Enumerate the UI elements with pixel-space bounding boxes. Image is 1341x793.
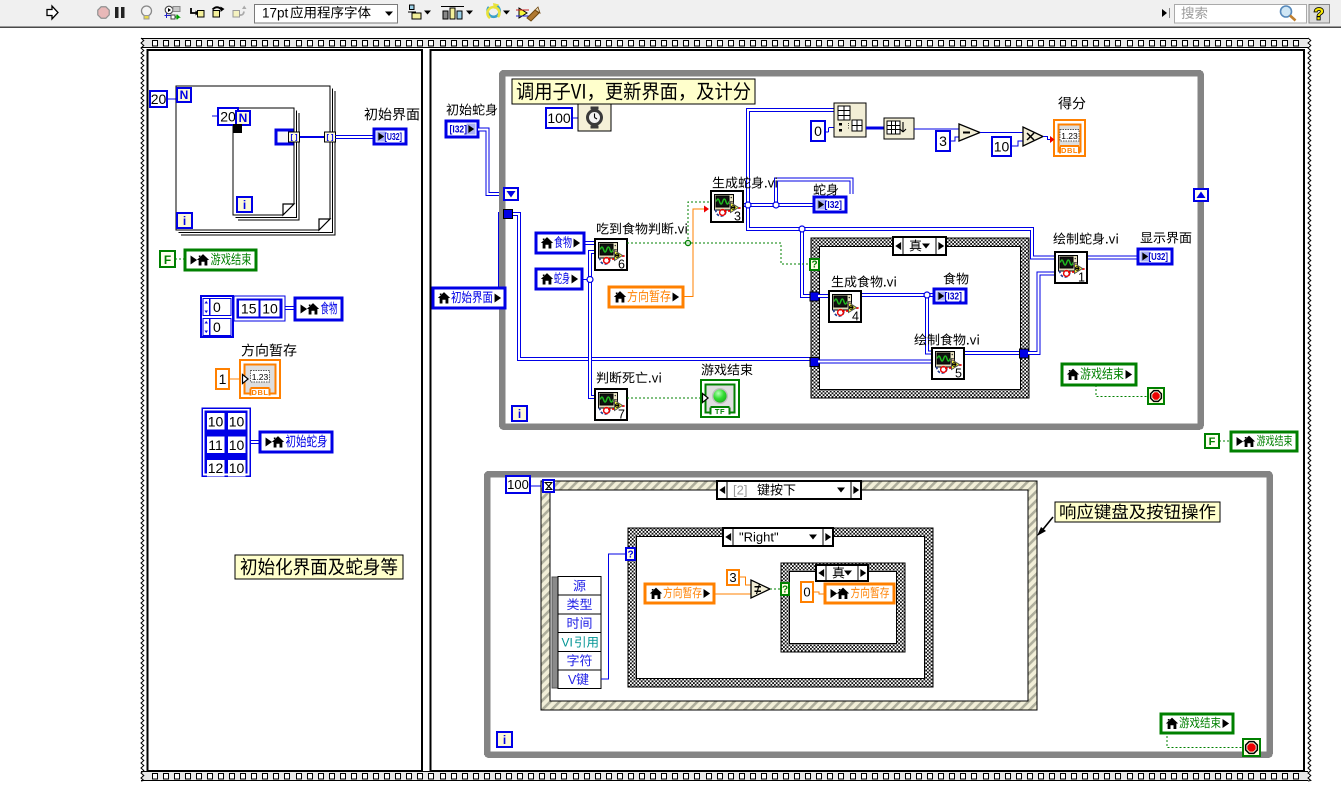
svg-text:10: 10 bbox=[229, 460, 245, 476]
svg-text:0: 0 bbox=[803, 585, 810, 600]
svg-text:3: 3 bbox=[939, 133, 947, 149]
svg-text:?: ? bbox=[811, 260, 817, 271]
svg-text:?: ? bbox=[782, 585, 788, 596]
svg-text:[ ]: [ ] bbox=[290, 133, 298, 142]
svg-text:0: 0 bbox=[814, 123, 822, 139]
svg-text:10: 10 bbox=[229, 437, 245, 453]
svg-text:[I32]: [I32] bbox=[825, 200, 843, 211]
svg-text:1.23: 1.23 bbox=[252, 372, 269, 382]
svg-text:?: ? bbox=[1314, 5, 1324, 24]
svg-text:0: 0 bbox=[213, 299, 221, 315]
svg-text:17pt: 17pt bbox=[262, 6, 289, 21]
svg-text:10: 10 bbox=[994, 139, 1010, 155]
svg-text:1: 1 bbox=[1078, 271, 1085, 285]
svg-text:15: 15 bbox=[241, 301, 257, 317]
svg-text:[ ]: [ ] bbox=[326, 133, 334, 142]
svg-text:10: 10 bbox=[262, 301, 278, 317]
svg-text:?: ? bbox=[627, 550, 633, 561]
svg-text:5: 5 bbox=[955, 367, 962, 381]
svg-text:100: 100 bbox=[547, 110, 571, 126]
svg-text:⋮: ⋮ bbox=[845, 123, 852, 130]
svg-text:N: N bbox=[239, 111, 248, 125]
svg-text:20: 20 bbox=[151, 91, 167, 107]
svg-text:6: 6 bbox=[618, 258, 625, 272]
svg-text:10: 10 bbox=[208, 413, 224, 429]
svg-text:1: 1 bbox=[219, 371, 227, 387]
svg-text:F: F bbox=[164, 253, 171, 267]
svg-text:F: F bbox=[1209, 436, 1216, 448]
svg-text:3: 3 bbox=[729, 570, 736, 585]
svg-text:100: 100 bbox=[507, 477, 529, 492]
svg-text:3: 3 bbox=[734, 210, 741, 224]
svg-text:[I32]: [I32] bbox=[945, 292, 963, 303]
svg-text:[2]: [2] bbox=[733, 483, 747, 498]
svg-text:[U32]: [U32] bbox=[385, 132, 403, 143]
svg-text:1.23: 1.23 bbox=[1061, 131, 1078, 141]
svg-text:11: 11 bbox=[208, 437, 223, 453]
svg-text:7: 7 bbox=[618, 408, 625, 422]
svg-text:i: i bbox=[243, 198, 246, 212]
svg-text:i: i bbox=[503, 733, 506, 747]
svg-text:20: 20 bbox=[220, 109, 236, 125]
svg-text:i: i bbox=[518, 407, 521, 421]
svg-text:DBL: DBL bbox=[1061, 146, 1078, 155]
svg-text:TF: TF bbox=[715, 407, 725, 416]
svg-text:0: 0 bbox=[213, 319, 221, 335]
svg-text:VI: VI bbox=[562, 636, 573, 650]
svg-text:V: V bbox=[568, 673, 577, 687]
svg-text:N: N bbox=[180, 88, 189, 102]
svg-text:10: 10 bbox=[229, 413, 245, 429]
svg-text:[I32]: [I32] bbox=[450, 125, 468, 136]
svg-text:4: 4 bbox=[852, 310, 859, 324]
svg-text:i: i bbox=[183, 214, 186, 228]
svg-text:DBL: DBL bbox=[252, 388, 269, 397]
svg-text:"Right": "Right" bbox=[739, 530, 779, 545]
svg-text:[U32]: [U32] bbox=[1149, 252, 1169, 263]
svg-text:12: 12 bbox=[208, 460, 224, 476]
